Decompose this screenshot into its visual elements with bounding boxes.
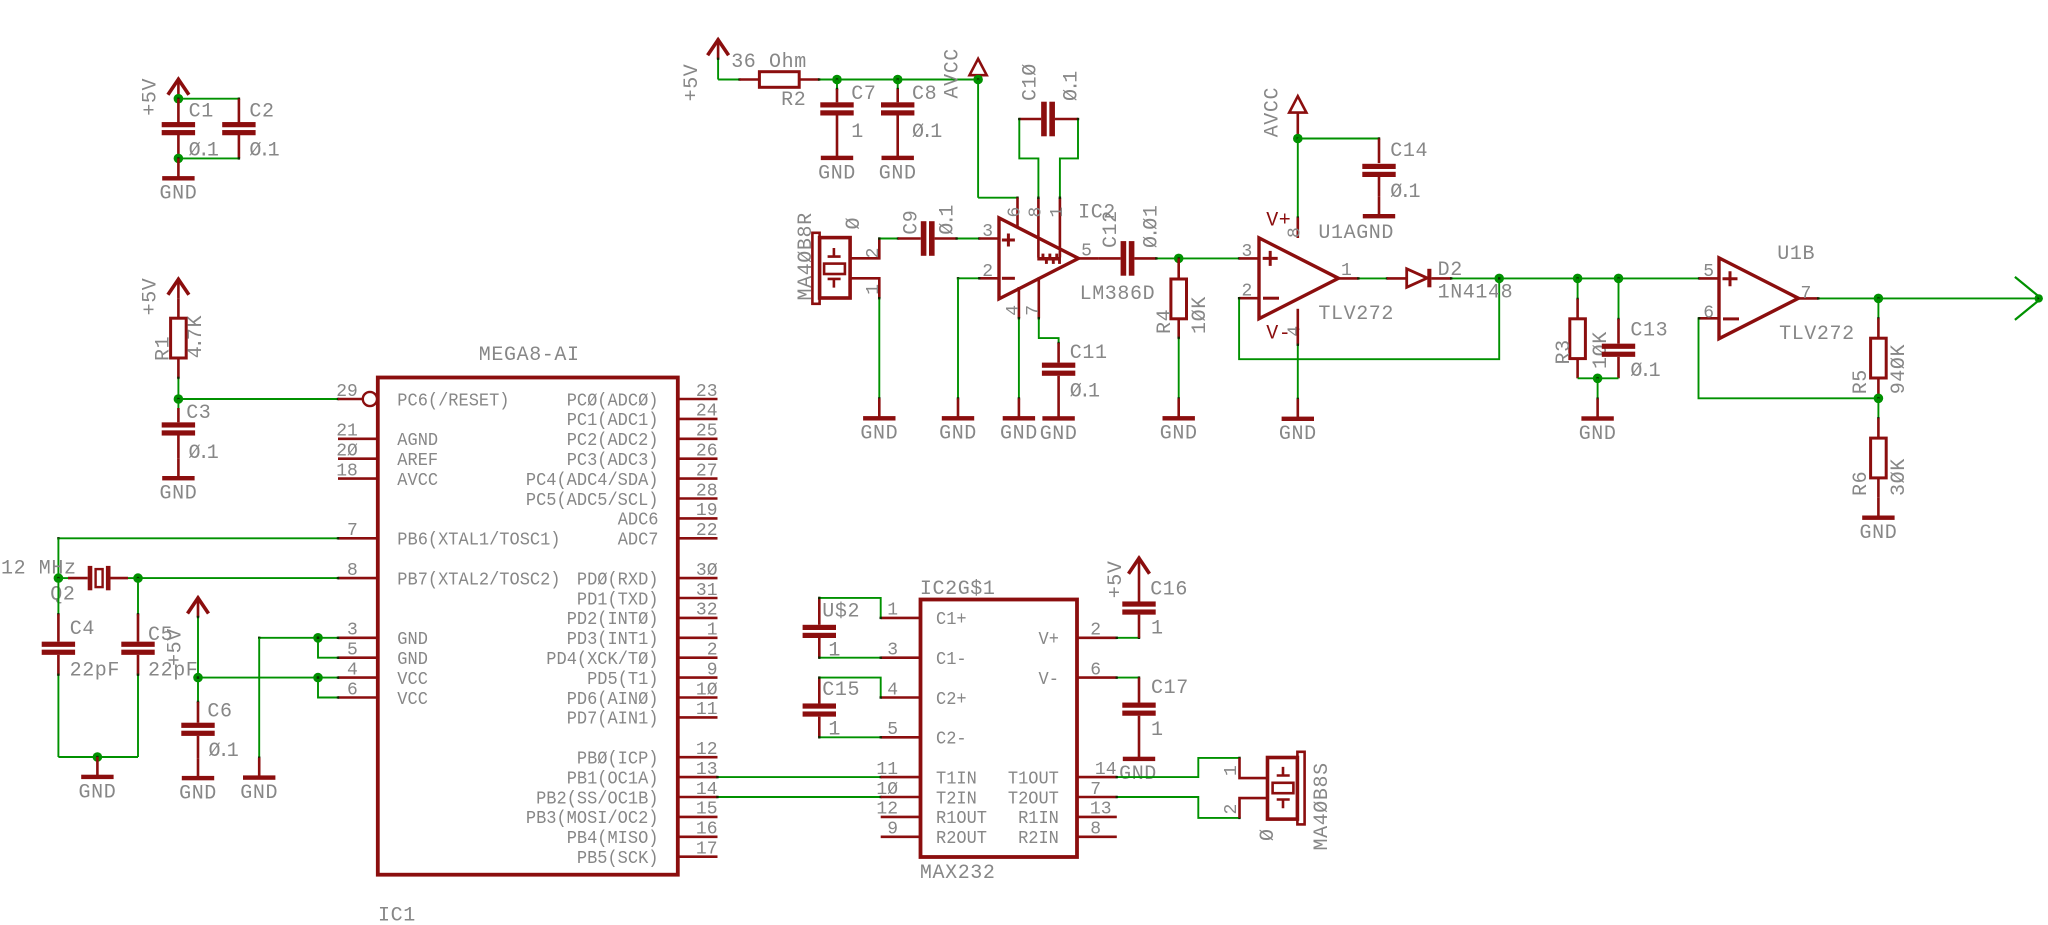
svg-text:7: 7 xyxy=(1801,284,1812,304)
svg-text:16: 16 xyxy=(696,820,718,840)
svg-text:T1OUT: T1OUT xyxy=(1008,769,1059,789)
svg-text:1: 1 xyxy=(707,621,718,641)
svg-text:+5V: +5V xyxy=(681,64,704,102)
svg-text:Ø.Ø1: Ø.Ø1 xyxy=(1141,205,1164,248)
svg-text:MAX232: MAX232 xyxy=(920,862,996,885)
svg-text:C2-: C2- xyxy=(936,730,967,750)
svg-text:1: 1 xyxy=(887,601,898,621)
svg-text:PB7(XTAL2/TOSC2): PB7(XTAL2/TOSC2) xyxy=(397,570,560,590)
svg-text:Ø.1: Ø.1 xyxy=(189,140,220,163)
svg-text:PB3(MOSI/OC2): PB3(MOSI/OC2) xyxy=(526,809,659,829)
svg-text:22: 22 xyxy=(696,521,718,541)
svg-text:1: 1 xyxy=(864,284,884,295)
svg-text:7: 7 xyxy=(347,521,358,541)
svg-text:C12: C12 xyxy=(1100,210,1123,248)
svg-text:8: 8 xyxy=(1286,227,1306,238)
svg-text:U$2: U$2 xyxy=(822,600,860,623)
svg-text:Ø.1: Ø.1 xyxy=(937,204,960,235)
svg-text:VCC: VCC xyxy=(397,670,428,690)
svg-text:IC1: IC1 xyxy=(378,905,416,925)
svg-text:T2IN: T2IN xyxy=(936,789,977,809)
svg-text:19: 19 xyxy=(696,501,718,521)
svg-text:C8: C8 xyxy=(912,83,937,106)
svg-text:D2: D2 xyxy=(1438,259,1463,282)
svg-text:PC5(ADC5/SCL): PC5(ADC5/SCL) xyxy=(526,491,659,511)
svg-text:25: 25 xyxy=(696,422,718,442)
svg-text:7: 7 xyxy=(1090,780,1101,800)
svg-text:24: 24 xyxy=(696,402,718,422)
svg-text:5: 5 xyxy=(347,641,358,661)
svg-text:6: 6 xyxy=(1006,207,1026,218)
svg-text:AREF: AREF xyxy=(397,451,438,471)
svg-text:GND: GND xyxy=(159,483,197,506)
svg-text:R1IN: R1IN xyxy=(1018,809,1059,829)
svg-text:PB2(SS/OC1B): PB2(SS/OC1B) xyxy=(536,789,658,809)
svg-text:C14: C14 xyxy=(1390,140,1428,163)
svg-text:12: 12 xyxy=(876,800,898,820)
svg-text:PC3(ADC3): PC3(ADC3) xyxy=(567,451,659,471)
svg-text:PB6(XTAL1/TOSC1): PB6(XTAL1/TOSC1) xyxy=(397,531,560,551)
svg-text:+5V: +5V xyxy=(140,278,163,316)
svg-text:GND: GND xyxy=(818,162,856,185)
svg-text:2: 2 xyxy=(1222,804,1242,815)
svg-text:28: 28 xyxy=(696,481,718,501)
svg-text:GND: GND xyxy=(159,183,197,206)
svg-text:GND: GND xyxy=(860,423,898,446)
svg-text:1: 1 xyxy=(828,640,841,663)
svg-text:C13: C13 xyxy=(1630,320,1668,343)
svg-text:PC6(/RESET): PC6(/RESET) xyxy=(397,391,509,411)
svg-text:TLV272: TLV272 xyxy=(1318,303,1394,326)
svg-text:32: 32 xyxy=(696,601,718,621)
svg-text:+5V: +5V xyxy=(140,78,163,116)
svg-text:8: 8 xyxy=(1090,820,1101,840)
svg-text:Ø.1: Ø.1 xyxy=(209,740,240,763)
svg-text:R2IN: R2IN xyxy=(1018,829,1059,849)
svg-text:T1IN: T1IN xyxy=(936,769,977,789)
svg-text:1: 1 xyxy=(851,121,864,144)
svg-text:5: 5 xyxy=(1703,262,1714,282)
svg-text:4: 4 xyxy=(347,660,358,680)
svg-text:4: 4 xyxy=(887,680,898,700)
svg-text:12 MHz: 12 MHz xyxy=(1,558,77,581)
svg-text:1: 1 xyxy=(828,718,841,741)
svg-text:6: 6 xyxy=(1090,660,1101,680)
svg-text:+5V: +5V xyxy=(1105,560,1128,598)
svg-text:V+: V+ xyxy=(1039,630,1059,650)
svg-text:7: 7 xyxy=(1024,305,1044,316)
svg-text:5: 5 xyxy=(1081,241,1092,261)
svg-text:C1Ø: C1Ø xyxy=(1020,63,1043,101)
svg-text:11: 11 xyxy=(876,760,898,780)
svg-text:R3: R3 xyxy=(1553,339,1576,364)
svg-text:4: 4 xyxy=(1004,305,1024,316)
svg-text:12: 12 xyxy=(696,740,718,760)
svg-text:GND: GND xyxy=(397,630,428,650)
svg-text:36 Ohm: 36 Ohm xyxy=(731,51,807,74)
svg-text:Ø.1: Ø.1 xyxy=(1630,360,1661,383)
svg-text:V-: V- xyxy=(1039,670,1059,690)
svg-text:C1: C1 xyxy=(189,101,214,124)
svg-text:2: 2 xyxy=(1242,282,1253,302)
svg-text:GND: GND xyxy=(1000,423,1038,446)
svg-text:PC4(ADC4/SDA): PC4(ADC4/SDA) xyxy=(526,471,659,491)
svg-text:GND: GND xyxy=(1040,423,1078,446)
svg-text:15: 15 xyxy=(696,800,718,820)
svg-text:AGND: AGND xyxy=(397,431,438,451)
svg-text:PCØ(ADCØ): PCØ(ADCØ) xyxy=(567,391,659,411)
svg-text:LM386D: LM386D xyxy=(1080,283,1156,306)
svg-text:C6: C6 xyxy=(207,701,232,724)
svg-text:PD3(INT1): PD3(INT1) xyxy=(567,630,659,650)
svg-text:1N4148: 1N4148 xyxy=(1438,282,1514,305)
svg-text:VCC: VCC xyxy=(397,690,428,710)
svg-text:AVCC: AVCC xyxy=(397,471,438,491)
svg-text:C9: C9 xyxy=(901,210,924,235)
svg-text:GND: GND xyxy=(1859,522,1897,545)
svg-text:PBØ(ICP): PBØ(ICP) xyxy=(577,750,659,770)
svg-text:13: 13 xyxy=(696,760,718,780)
svg-text:+5V: +5V xyxy=(165,628,188,666)
svg-text:C17: C17 xyxy=(1151,677,1189,700)
svg-text:C2: C2 xyxy=(249,101,274,124)
svg-text:1: 1 xyxy=(1222,765,1242,776)
svg-text:GND: GND xyxy=(1160,423,1198,446)
svg-text:PD7(AIN1): PD7(AIN1) xyxy=(567,710,659,730)
svg-text:TLV272: TLV272 xyxy=(1779,323,1855,346)
svg-text:AVCC: AVCC xyxy=(942,48,965,98)
svg-text:C15: C15 xyxy=(822,679,860,702)
svg-text:3ØK: 3ØK xyxy=(1888,458,1911,496)
svg-text:6: 6 xyxy=(347,680,358,700)
svg-text:3: 3 xyxy=(347,621,358,641)
svg-text:5: 5 xyxy=(887,720,898,740)
svg-text:U1AGND: U1AGND xyxy=(1318,222,1394,245)
svg-text:1: 1 xyxy=(1048,207,1068,218)
svg-text:14: 14 xyxy=(696,780,718,800)
svg-text:1: 1 xyxy=(1151,617,1164,640)
svg-text:3: 3 xyxy=(982,222,993,242)
svg-text:3: 3 xyxy=(887,641,898,661)
svg-text:11: 11 xyxy=(696,700,718,720)
svg-text:94ØK: 94ØK xyxy=(1888,344,1911,394)
svg-text:GND: GND xyxy=(1119,763,1157,786)
svg-text:2: 2 xyxy=(707,641,718,661)
svg-text:C3: C3 xyxy=(186,402,211,425)
svg-text:1Ø: 1Ø xyxy=(876,780,898,800)
svg-text:PC2(ADC2): PC2(ADC2) xyxy=(567,431,659,451)
svg-text:8: 8 xyxy=(347,561,358,581)
svg-text:PD2(INTØ): PD2(INTØ) xyxy=(567,610,659,630)
svg-text:C7: C7 xyxy=(851,83,876,106)
svg-text:PB4(MISO): PB4(MISO) xyxy=(567,829,659,849)
svg-text:29: 29 xyxy=(336,382,358,402)
svg-text:GND: GND xyxy=(179,783,217,806)
svg-text:C11: C11 xyxy=(1070,342,1108,365)
svg-text:GND: GND xyxy=(1279,423,1317,446)
svg-text:R1: R1 xyxy=(152,336,175,361)
svg-text:17: 17 xyxy=(696,840,718,860)
svg-text:31: 31 xyxy=(696,581,718,601)
svg-text:1ØK: 1ØK xyxy=(1590,331,1613,369)
svg-text:PC1(ADC1): PC1(ADC1) xyxy=(567,411,659,431)
svg-text:4: 4 xyxy=(1286,326,1306,337)
svg-text:9: 9 xyxy=(887,820,898,840)
svg-text:R5: R5 xyxy=(1850,369,1873,394)
svg-text:ADC7: ADC7 xyxy=(618,531,659,551)
svg-text:PB1(OC1A): PB1(OC1A) xyxy=(567,769,659,789)
svg-text:14: 14 xyxy=(1095,760,1117,780)
svg-text:1: 1 xyxy=(1341,261,1352,281)
svg-text:R1OUT: R1OUT xyxy=(936,809,987,829)
svg-text:C4: C4 xyxy=(70,618,95,641)
svg-text:3Ø: 3Ø xyxy=(696,561,718,581)
svg-text:GND: GND xyxy=(1579,423,1617,446)
svg-text:8: 8 xyxy=(1026,207,1046,218)
svg-text:IC2G$1: IC2G$1 xyxy=(920,578,996,601)
svg-text:T2OUT: T2OUT xyxy=(1008,789,1059,809)
svg-text:C2+: C2+ xyxy=(936,690,967,710)
svg-text:R6: R6 xyxy=(1850,471,1873,496)
svg-text:Ø.1: Ø.1 xyxy=(189,442,220,465)
svg-text:ADC6: ADC6 xyxy=(618,511,659,531)
svg-text:GND: GND xyxy=(397,650,428,670)
svg-text:2: 2 xyxy=(982,262,993,282)
svg-text:PD6(AINØ): PD6(AINØ) xyxy=(567,690,659,710)
svg-text:AVCC: AVCC xyxy=(1261,87,1284,137)
svg-text:Ø: Ø xyxy=(1257,828,1280,841)
svg-text:21: 21 xyxy=(336,422,358,442)
svg-text:GND: GND xyxy=(240,782,278,805)
svg-text:23: 23 xyxy=(696,382,718,402)
svg-text:2Ø: 2Ø xyxy=(336,442,358,462)
svg-text:GND: GND xyxy=(939,423,977,446)
svg-text:Ø: Ø xyxy=(843,217,866,230)
svg-text:22pF: 22pF xyxy=(70,660,120,683)
svg-text:1Ø: 1Ø xyxy=(696,680,718,700)
svg-text:GND: GND xyxy=(879,162,917,185)
svg-text:9: 9 xyxy=(707,660,718,680)
svg-text:18: 18 xyxy=(336,461,358,481)
svg-text:Q2: Q2 xyxy=(50,584,75,607)
svg-text:6: 6 xyxy=(1703,303,1714,323)
svg-text:GND: GND xyxy=(78,781,116,804)
svg-text:PDØ(RXD): PDØ(RXD) xyxy=(577,570,659,590)
svg-text:2: 2 xyxy=(864,248,884,259)
svg-text:R2OUT: R2OUT xyxy=(936,829,987,849)
svg-text:27: 27 xyxy=(696,461,718,481)
svg-text:C1-: C1- xyxy=(936,650,967,670)
svg-text:2: 2 xyxy=(1090,621,1101,641)
svg-text:26: 26 xyxy=(696,442,718,462)
svg-text:1ØK: 1ØK xyxy=(1189,296,1212,334)
svg-text:C1+: C1+ xyxy=(936,610,967,630)
svg-text:Ø.1: Ø.1 xyxy=(249,140,280,163)
svg-text:Ø.1: Ø.1 xyxy=(1390,181,1421,204)
svg-text:13: 13 xyxy=(1090,800,1112,820)
svg-text:PD4(XCK/TØ): PD4(XCK/TØ) xyxy=(546,650,658,670)
svg-text:U1B: U1B xyxy=(1777,243,1815,266)
svg-text:MA4ØB8S: MA4ØB8S xyxy=(1311,762,1334,850)
svg-text:C16: C16 xyxy=(1150,579,1188,602)
svg-text:MEGA8-AI: MEGA8-AI xyxy=(479,344,580,367)
svg-text:MA4ØB8R: MA4ØB8R xyxy=(795,212,818,300)
svg-text:Ø.1: Ø.1 xyxy=(1070,381,1101,404)
svg-text:R4: R4 xyxy=(1154,309,1177,334)
svg-text:R2: R2 xyxy=(781,89,806,112)
svg-text:Ø.1: Ø.1 xyxy=(912,121,943,144)
svg-text:1: 1 xyxy=(1151,719,1164,742)
svg-text:3: 3 xyxy=(1242,242,1253,262)
svg-text:Ø.1: Ø.1 xyxy=(1061,70,1084,101)
svg-text:PD1(TXD): PD1(TXD) xyxy=(577,590,659,610)
svg-text:PB5(SCK): PB5(SCK) xyxy=(577,849,659,869)
svg-text:PD5(T1): PD5(T1) xyxy=(587,670,658,690)
svg-text:4.7K: 4.7K xyxy=(185,315,208,358)
